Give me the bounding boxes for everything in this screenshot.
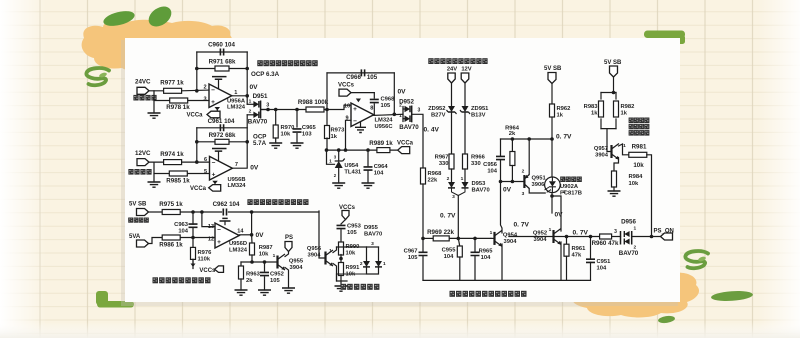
resistor R983 bbox=[599, 101, 604, 117]
svg-text:7: 7 bbox=[235, 162, 238, 168]
svg-text:TL431: TL431 bbox=[344, 169, 362, 175]
resistor R969 bbox=[433, 236, 449, 241]
capacitor C966 bbox=[361, 69, 364, 76]
svg-text:LM324: LM324 bbox=[227, 183, 246, 189]
svg-text:110k: 110k bbox=[198, 257, 211, 263]
wire U956D output node bbox=[239, 234, 251, 236]
svg-text:D953: D953 bbox=[472, 181, 487, 187]
svg-text:0. 4V: 0. 4V bbox=[424, 127, 440, 134]
svg-text:1k: 1k bbox=[591, 111, 598, 117]
svg-text:0. 7V: 0. 7V bbox=[556, 134, 572, 141]
wire feedback loop (C966) around U956C bbox=[327, 72, 394, 74]
wire R981 to PS_ON column bbox=[647, 155, 652, 237]
wire U956C output to D952 bbox=[374, 114, 403, 115]
svg-text:10k: 10k bbox=[281, 132, 291, 138]
diode D956 (dual, BAV70) bbox=[612, 236, 621, 238]
capacitor C962 (feedback) bbox=[223, 209, 226, 216]
transistor Q955 bbox=[276, 256, 278, 269]
svg-text:VCCa: VCCa bbox=[186, 113, 203, 119]
wire U956B output up to D951 pin2 bbox=[232, 115, 247, 168]
svg-text:Q957: Q957 bbox=[594, 146, 608, 152]
wire 24VC input to pin2 bbox=[149, 90, 164, 92]
wire Q955 collector to PS flag bbox=[285, 252, 289, 257]
resistor R976 bbox=[192, 238, 194, 248]
svg-text:U954: U954 bbox=[344, 163, 359, 169]
wire node3 to R988 and to U956C bbox=[261, 109, 306, 111]
caption 主电源过压保护检测 bbox=[428, 58, 433, 64]
svg-text:R983: R983 bbox=[584, 104, 599, 110]
svg-text:R976: R976 bbox=[198, 250, 213, 256]
ground below R984 bbox=[608, 191, 621, 196]
svg-text:LM324: LM324 bbox=[374, 118, 393, 124]
svg-text:3: 3 bbox=[203, 96, 206, 102]
resistor R990 bbox=[339, 242, 344, 255]
svg-text:3: 3 bbox=[418, 108, 421, 114]
svg-text:C965: C965 bbox=[302, 125, 317, 131]
svg-text:R967: R967 bbox=[435, 155, 449, 161]
svg-text:R982: R982 bbox=[621, 104, 635, 110]
capacitor C963 (in R976 branch) bbox=[192, 212, 194, 224]
svg-text:22k: 22k bbox=[428, 178, 438, 184]
svg-text:3: 3 bbox=[614, 229, 617, 235]
wire R969 rail bbox=[423, 237, 433, 239]
svg-text:10k: 10k bbox=[633, 162, 644, 169]
wire bottom rail bbox=[423, 279, 591, 281]
svg-text:C953: C953 bbox=[347, 224, 362, 230]
wire 5VSB column through 0.7V node bbox=[551, 117, 553, 179]
svg-text:Q955: Q955 bbox=[289, 259, 304, 265]
svg-text:2: 2 bbox=[634, 245, 637, 251]
wire Q952 emitter to rail bbox=[560, 242, 562, 280]
resistor R986 bbox=[162, 235, 180, 240]
caption 过流取样 (2) bbox=[128, 169, 133, 175]
svg-text:3: 3 bbox=[452, 194, 455, 200]
svg-text:10: 10 bbox=[344, 104, 350, 110]
svg-text:0V: 0V bbox=[250, 165, 259, 172]
resistor R982 bbox=[614, 101, 619, 117]
ground below 24VC input bbox=[148, 113, 161, 118]
wire Q955 emitter to ground bbox=[285, 268, 289, 289]
wire clear rail bbox=[337, 274, 348, 281]
svg-text:R981: R981 bbox=[632, 144, 647, 151]
wire opto pins bbox=[551, 194, 553, 196]
svg-text:2: 2 bbox=[360, 261, 363, 267]
resistor R971 bbox=[215, 66, 229, 71]
capacitor C967 with lead bbox=[422, 238, 424, 252]
svg-text:U956C: U956C bbox=[374, 124, 393, 130]
svg-text:1k: 1k bbox=[557, 113, 564, 119]
svg-text:R971 68k: R971 68k bbox=[209, 59, 236, 66]
transistor Q952 bbox=[546, 236, 554, 238]
svg-text:0V: 0V bbox=[256, 232, 265, 239]
transistor Q951 (PNP 3906) bbox=[501, 181, 525, 183]
resistor R964 bbox=[511, 139, 513, 151]
svg-text:C966: C966 bbox=[346, 74, 361, 81]
svg-text:−: − bbox=[212, 160, 216, 167]
svg-text:330: 330 bbox=[439, 161, 449, 167]
zener ZD951 bbox=[462, 106, 469, 112]
svg-text:13: 13 bbox=[208, 224, 214, 230]
svg-text:1: 1 bbox=[399, 113, 402, 119]
caption 副电源过流保护检测 (top) bbox=[247, 199, 252, 205]
resistor R965 (below D953 node) bbox=[458, 238, 460, 246]
svg-text:104: 104 bbox=[597, 266, 607, 272]
resistor R977 bbox=[164, 88, 182, 93]
svg-text:2: 2 bbox=[563, 189, 566, 195]
svg-text:10k: 10k bbox=[259, 252, 269, 258]
svg-text:R991: R991 bbox=[346, 265, 361, 271]
svg-text:3904: 3904 bbox=[504, 239, 518, 245]
svg-text:−: − bbox=[353, 118, 357, 125]
svg-text:BAV70: BAV70 bbox=[248, 119, 268, 126]
wire Q957 collector to R981 bbox=[619, 144, 629, 155]
svg-text:14: 14 bbox=[237, 229, 244, 235]
resistor R960 bbox=[600, 234, 612, 239]
svg-text:1: 1 bbox=[234, 90, 237, 96]
resistor R991 bbox=[339, 263, 344, 276]
ground below U954 bbox=[332, 183, 345, 188]
op-amp U956A bbox=[209, 84, 232, 108]
svg-text:330: 330 bbox=[471, 161, 481, 167]
svg-text:104: 104 bbox=[374, 171, 384, 177]
wire zener branch 12V bbox=[464, 83, 466, 106]
svg-text:C956: C956 bbox=[483, 162, 498, 168]
svg-text:R963: R963 bbox=[246, 272, 261, 278]
svg-text:C967: C967 bbox=[404, 249, 418, 255]
caption 过流取样 (1) bbox=[133, 95, 138, 101]
capacitor C952 with ground bbox=[264, 262, 266, 271]
resistor R972 bbox=[215, 139, 229, 144]
power flag VCCa stage1 bbox=[215, 107, 221, 111]
input flag 24VC bbox=[137, 87, 149, 94]
svg-text:R988 100k: R988 100k bbox=[298, 99, 329, 106]
wire pin13 branch bbox=[202, 212, 215, 227]
svg-text:2k: 2k bbox=[509, 131, 516, 137]
svg-text:0V: 0V bbox=[503, 187, 512, 194]
svg-text:5V SB: 5V SB bbox=[544, 66, 562, 72]
svg-text:3904: 3904 bbox=[534, 237, 548, 243]
svg-text:1: 1 bbox=[461, 176, 464, 182]
svg-text:VCCs: VCCs bbox=[199, 268, 216, 274]
transistor Q954 bbox=[491, 237, 495, 239]
svg-text:3906: 3906 bbox=[532, 182, 546, 188]
svg-text:ZD952: ZD952 bbox=[428, 106, 445, 112]
svg-text:1: 1 bbox=[329, 159, 332, 165]
svg-text:R972 68k: R972 68k bbox=[209, 132, 236, 139]
svg-text:1: 1 bbox=[329, 248, 332, 254]
svg-text:R965: R965 bbox=[479, 249, 494, 255]
wire 0.7V rail bbox=[501, 138, 553, 140]
svg-text:VCCs: VCCs bbox=[338, 83, 355, 89]
svg-text:104: 104 bbox=[487, 169, 497, 175]
svg-text:BAV70: BAV70 bbox=[619, 250, 639, 257]
svg-text:3904: 3904 bbox=[308, 253, 322, 259]
svg-text:5VA: 5VA bbox=[129, 234, 141, 240]
svg-text:12VC: 12VC bbox=[135, 150, 151, 157]
svg-text:0V: 0V bbox=[555, 212, 564, 219]
svg-text:R962: R962 bbox=[557, 106, 571, 112]
wire U956A output to D951 bbox=[232, 96, 248, 105]
svg-text:105: 105 bbox=[270, 278, 280, 284]
resistor R989 bbox=[377, 148, 390, 153]
svg-text:OCP 6.3A: OCP 6.3A bbox=[251, 71, 280, 78]
svg-text:R989 1k: R989 1k bbox=[369, 140, 393, 147]
svg-text:C960 104: C960 104 bbox=[208, 42, 235, 49]
svg-text:104: 104 bbox=[444, 254, 454, 260]
svg-text:D955: D955 bbox=[364, 225, 379, 231]
resistor R961 with C951 bbox=[566, 237, 568, 245]
svg-text:Q956: Q956 bbox=[307, 246, 322, 252]
svg-text:105: 105 bbox=[367, 74, 378, 81]
svg-text:2: 2 bbox=[399, 103, 402, 109]
input flag 24V bbox=[448, 73, 455, 83]
optocoupler U902A PC817B bbox=[545, 177, 561, 193]
svg-text:3904: 3904 bbox=[595, 153, 609, 159]
svg-text:+: + bbox=[217, 239, 221, 246]
svg-text:0V: 0V bbox=[398, 89, 407, 96]
svg-text:104: 104 bbox=[178, 229, 188, 235]
op-amp U956C bbox=[351, 103, 374, 127]
capacitor C961 bbox=[220, 124, 223, 131]
svg-text:1: 1 bbox=[383, 261, 386, 267]
svg-text:0. 7V: 0. 7V bbox=[440, 213, 456, 220]
svg-text:C961 104: C961 104 bbox=[208, 118, 235, 125]
wire 5VSB input row / C962 feedback row bbox=[149, 211, 162, 213]
svg-text:BAV70: BAV70 bbox=[399, 124, 419, 131]
wire pair bottom to Q957 base bbox=[607, 129, 612, 152]
svg-text:+: + bbox=[211, 99, 215, 106]
svg-text:R985 1k: R985 1k bbox=[166, 177, 190, 184]
svg-text:R975 1k: R975 1k bbox=[159, 201, 183, 208]
svg-text:105: 105 bbox=[347, 230, 357, 236]
svg-text:2: 2 bbox=[447, 176, 450, 182]
wire R983/R982 parallel pair bbox=[601, 92, 616, 94]
capacitor C960 bbox=[220, 49, 223, 56]
svg-text:LM324: LM324 bbox=[229, 247, 248, 253]
capacitor C968 bbox=[373, 93, 375, 98]
wire Q956 collector up to D955 rail bbox=[333, 247, 337, 253]
diode D953 (dual, BAV70) bbox=[448, 182, 455, 188]
svg-text:10k: 10k bbox=[629, 181, 639, 187]
svg-text:24VC: 24VC bbox=[135, 79, 151, 86]
capacitor C964 with ground bbox=[367, 150, 369, 167]
svg-text:ZD951: ZD951 bbox=[471, 106, 489, 112]
wire base node row bbox=[241, 261, 278, 263]
svg-text:BAV70: BAV70 bbox=[472, 188, 490, 194]
op-amp U956D bbox=[215, 223, 239, 248]
resistor R974 bbox=[164, 160, 182, 165]
svg-text:1: 1 bbox=[563, 176, 566, 182]
input flag 12V bbox=[461, 73, 469, 83]
wire Q952 base from R969 rail bbox=[509, 236, 546, 238]
svg-text:1: 1 bbox=[623, 143, 626, 149]
ground below R991 bbox=[335, 286, 348, 291]
svg-text:C952: C952 bbox=[270, 272, 284, 278]
svg-text:C963: C963 bbox=[174, 222, 189, 228]
svg-text:8: 8 bbox=[370, 105, 373, 111]
capacitor C955 with lead bbox=[474, 238, 476, 252]
wire pin9 to reference rail bbox=[346, 120, 352, 150]
wire reference rail (TL431 node) bbox=[326, 149, 398, 151]
wire feedback loop 1 (C960/R971) around U956A bbox=[197, 51, 247, 53]
resistor R978 bbox=[170, 98, 188, 103]
ground below 12VC input bbox=[148, 182, 161, 187]
op-amp U956B bbox=[210, 156, 233, 180]
svg-text:VCCa: VCCa bbox=[397, 141, 414, 147]
svg-text:1: 1 bbox=[549, 227, 552, 233]
svg-text:R978 1k: R978 1k bbox=[166, 104, 190, 111]
svg-text:C968: C968 bbox=[381, 97, 396, 103]
resistor R973 bbox=[326, 110, 328, 127]
svg-text:5V SB: 5V SB bbox=[129, 202, 147, 208]
svg-text:−: − bbox=[217, 227, 221, 234]
svg-text:−: − bbox=[211, 87, 215, 94]
svg-text:LM324: LM324 bbox=[227, 105, 246, 111]
svg-text:R977 1k: R977 1k bbox=[160, 79, 184, 86]
svg-text:Q952: Q952 bbox=[533, 231, 547, 237]
ground above U956A bbox=[218, 79, 220, 88]
power flag VCCa stage2 bbox=[212, 181, 218, 185]
svg-text:0. 7V: 0. 7V bbox=[514, 222, 530, 229]
transistor Q956 bbox=[324, 252, 326, 265]
svg-text:PS_ON: PS_ON bbox=[654, 229, 674, 235]
diode D951 (dual, BAV70) bbox=[247, 103, 253, 105]
caption 过流取样 (3) bbox=[128, 218, 133, 223]
caption 副电源过流保护检测 (bottom) bbox=[153, 277, 159, 283]
svg-text:R987: R987 bbox=[259, 245, 273, 251]
svg-text:0V: 0V bbox=[250, 84, 259, 91]
svg-text:VCCa: VCCa bbox=[190, 186, 207, 192]
capacitor C953 bbox=[337, 225, 346, 228]
wire D952 node down to R968 bbox=[412, 114, 423, 168]
svg-text:B27V: B27V bbox=[431, 112, 446, 118]
svg-text:1: 1 bbox=[249, 98, 252, 104]
capacitor C951 bbox=[590, 237, 592, 260]
svg-text:R960 47k: R960 47k bbox=[592, 240, 619, 247]
resistor R981 bbox=[629, 152, 647, 157]
resistor R967 bbox=[449, 154, 454, 169]
svg-text:R968: R968 bbox=[428, 171, 443, 177]
svg-text:D956: D956 bbox=[621, 219, 636, 226]
caption 5VSB激 放稳定 电路 bbox=[629, 118, 634, 124]
svg-text:103: 103 bbox=[302, 132, 312, 138]
ground above U956D bbox=[224, 221, 226, 225]
wire Q951 emitter to 0.7V rail bbox=[528, 139, 530, 175]
svg-text:3904: 3904 bbox=[290, 265, 304, 271]
svg-text:R986 1k: R986 1k bbox=[159, 241, 183, 248]
resistor R962 bbox=[550, 104, 555, 117]
svg-text:1k: 1k bbox=[331, 134, 338, 140]
resistor R970 with ground bbox=[275, 110, 277, 126]
wire Q952 collector up to optocoupler bbox=[552, 196, 561, 231]
svg-text:R961: R961 bbox=[572, 246, 587, 252]
svg-text:1: 1 bbox=[634, 226, 637, 232]
svg-text:+: + bbox=[212, 171, 216, 178]
wire TL431 pin1 bbox=[327, 150, 335, 164]
resistor R975 bbox=[162, 210, 180, 215]
svg-text:Q951: Q951 bbox=[532, 176, 547, 182]
svg-text:2: 2 bbox=[522, 169, 525, 175]
shunt reference U954 TL431 bbox=[338, 150, 340, 161]
power flag VCCa near R989 bbox=[398, 147, 410, 154]
svg-text:1: 1 bbox=[273, 253, 276, 259]
svg-text:R966: R966 bbox=[471, 155, 486, 161]
svg-text:12V: 12V bbox=[461, 66, 471, 72]
wire zener branch 24V bbox=[451, 83, 453, 106]
svg-text:PS: PS bbox=[285, 235, 293, 241]
wire Q951 collector to opto LED bbox=[529, 189, 545, 194]
wire feedback loop 2 (C961/R972) around U956B bbox=[197, 127, 247, 129]
wire Q954 emitter down to rail bbox=[501, 244, 503, 280]
svg-text:10k: 10k bbox=[346, 251, 356, 257]
capacitor C956 bbox=[500, 139, 502, 156]
svg-text:R970: R970 bbox=[281, 125, 295, 131]
caption 副电源保护解除 bbox=[341, 284, 347, 290]
svg-text:D951: D951 bbox=[253, 93, 268, 100]
svg-text:R984: R984 bbox=[629, 174, 644, 180]
svg-text:+: + bbox=[353, 106, 357, 113]
svg-text:105: 105 bbox=[381, 103, 391, 109]
input flag 12VC bbox=[137, 159, 149, 166]
svg-text:2: 2 bbox=[249, 109, 252, 115]
wire 12VC input to pin6 bbox=[149, 161, 164, 163]
resistor R968 bbox=[421, 168, 426, 184]
svg-text:C964: C964 bbox=[374, 164, 389, 170]
svg-text:U956D: U956D bbox=[229, 241, 247, 247]
resistor R988 bbox=[306, 107, 324, 112]
resistor R984 bbox=[612, 171, 617, 187]
svg-text:5.7A: 5.7A bbox=[253, 140, 267, 147]
svg-text:BAV70: BAV70 bbox=[364, 232, 382, 238]
svg-text:3: 3 bbox=[522, 191, 525, 197]
resistor R985 bbox=[169, 171, 187, 176]
svg-text:1: 1 bbox=[490, 230, 493, 236]
label 待机光耦 U902A PC817B bbox=[560, 177, 565, 183]
transistor Q957 bbox=[610, 145, 612, 158]
wire 5VA input to pin12 bbox=[149, 238, 162, 244]
output flag PS_ON bbox=[661, 233, 673, 240]
svg-text:Q954: Q954 bbox=[503, 233, 518, 239]
wire Q957 emitter to R984 bbox=[614, 158, 619, 172]
svg-text:2k: 2k bbox=[246, 278, 253, 284]
svg-text:3: 3 bbox=[371, 241, 374, 247]
svg-text:1k: 1k bbox=[621, 111, 628, 117]
diode D955 pair bbox=[367, 246, 379, 248]
svg-text:R969 22k: R969 22k bbox=[427, 229, 454, 236]
svg-text:5V SB: 5V SB bbox=[604, 60, 622, 66]
ground below Q955 bbox=[282, 288, 295, 293]
svg-text:C955: C955 bbox=[442, 248, 457, 254]
svg-text:C951: C951 bbox=[597, 259, 612, 265]
resistor R966 bbox=[463, 154, 468, 169]
diode D952 (dual, BAV70) bbox=[403, 108, 405, 110]
svg-text:R974 1k: R974 1k bbox=[160, 151, 184, 158]
zener ZD952 bbox=[448, 106, 455, 112]
wire branch to pin3 / ground bbox=[153, 91, 155, 113]
caption 模拟可控硅保护执行电路 bbox=[450, 291, 456, 297]
capacitor C965 with ground bbox=[296, 110, 298, 128]
resistor R963 with ground bbox=[240, 262, 242, 266]
flag PS bbox=[285, 242, 292, 252]
ground above U956B bbox=[218, 151, 220, 160]
wire Q956 emitter down to clear rail bbox=[333, 264, 337, 282]
ground below U956C bbox=[360, 122, 362, 127]
wire Q954 collector up to Q951 base node bbox=[501, 182, 503, 233]
svg-text:104: 104 bbox=[481, 255, 491, 261]
svg-text:R973: R973 bbox=[331, 128, 346, 134]
svg-text:C962 104: C962 104 bbox=[213, 201, 240, 208]
svg-text:B13V: B13V bbox=[471, 112, 486, 118]
